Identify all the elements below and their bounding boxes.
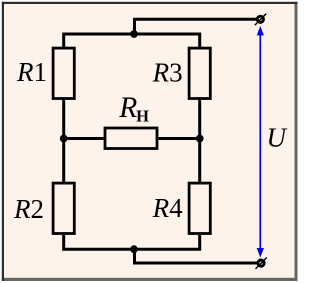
wire middle rail left: [64, 137, 104, 140]
resistor RH: [105, 128, 157, 149]
svg-text:R4: R4: [152, 193, 184, 223]
wire top rail: [64, 34, 200, 47]
svg-text:R3: R3: [152, 58, 183, 88]
resistor R3: [189, 48, 210, 98]
node A (top junction): [130, 30, 138, 38]
wire top branch to terminal: [135, 19, 257, 34]
wire middle rail right: [159, 137, 200, 140]
resistor R1: [53, 48, 74, 98]
wire bottom rail: [64, 235, 200, 249]
voltage line U: [257, 26, 264, 257]
resistor R4: [189, 183, 210, 233]
wire left rail middle: [62, 100, 65, 183]
node B (middle left junction): [60, 135, 68, 143]
wire right rail middle: [198, 100, 201, 183]
terminal top: [255, 14, 266, 25]
node D (bottom junction): [130, 245, 138, 253]
terminal bottom: [256, 258, 267, 269]
svg-text:R2: R2: [13, 194, 44, 224]
resistor R2: [53, 183, 74, 233]
svg-text:U: U: [267, 122, 288, 152]
node C (middle right junction): [196, 135, 204, 143]
wire bottom branch to terminal: [135, 249, 258, 263]
svg-text:R1: R1: [16, 57, 47, 87]
